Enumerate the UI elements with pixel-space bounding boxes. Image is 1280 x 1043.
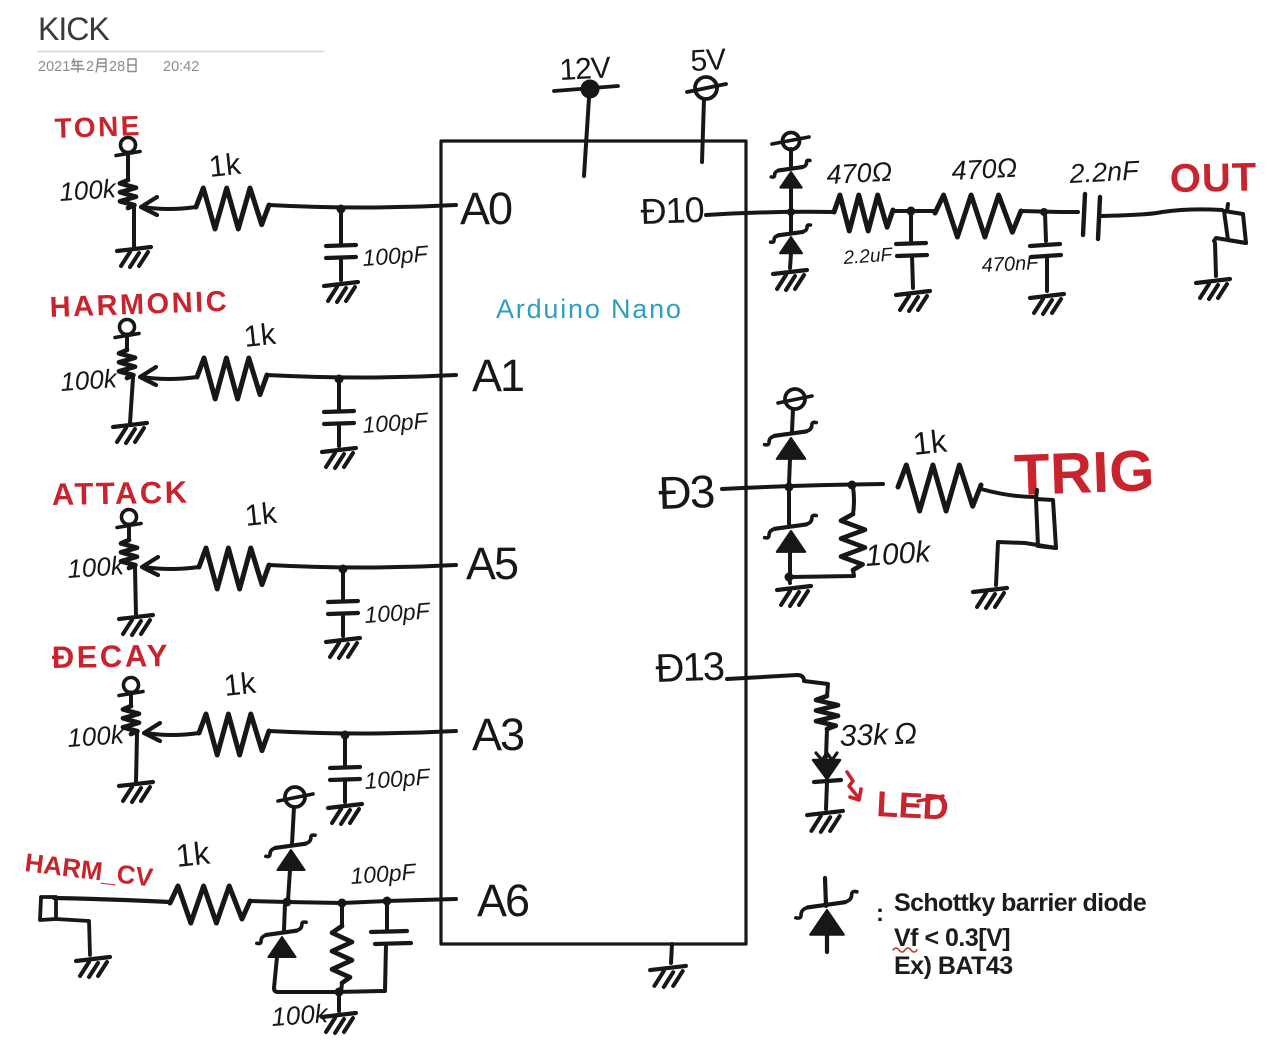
resistor 470ohm first bbox=[834, 195, 893, 231]
pin label D3 bbox=[658, 465, 715, 519]
svg-text:ĐECAY: ĐECAY bbox=[52, 638, 171, 675]
label TONE bbox=[54, 110, 142, 144]
power 5V bbox=[687, 43, 727, 162]
svg-text:100k: 100k bbox=[864, 535, 933, 573]
label OUT bbox=[1169, 155, 1257, 201]
label 470nF bbox=[981, 252, 1041, 277]
potentiometer TONE 100k bbox=[116, 138, 151, 268]
resistor 100k (A6) bbox=[332, 903, 352, 992]
red arrow to LED label bbox=[847, 772, 861, 800]
label 100pF (HARMONIC) bbox=[362, 407, 431, 438]
svg-text:ATTACK: ATTACK bbox=[52, 475, 190, 512]
label 1k (HARMONIC) bbox=[242, 318, 278, 354]
diode D10 clamp bottom Schottky bbox=[771, 214, 811, 268]
svg-text:OUT: OUT bbox=[1169, 155, 1257, 201]
label 1k (TONE) bbox=[207, 148, 243, 184]
divider line bbox=[38, 51, 324, 53]
wire 1k to pin A3 bbox=[269, 731, 456, 734]
svg-text:100pF: 100pF bbox=[364, 597, 433, 628]
wire to node1 (filter) bbox=[893, 209, 935, 213]
label 1k (HARM_CV) bbox=[174, 835, 212, 874]
wire D3 to trig network bbox=[722, 484, 883, 489]
wire pot wiper to 1k (TONE) bbox=[141, 197, 196, 215]
svg-text:HARMONIC: HARMONIC bbox=[49, 286, 230, 324]
potentiometer HARMONIC 100k bbox=[113, 320, 147, 444]
svg-text:470nF: 470nF bbox=[981, 252, 1041, 277]
svg-text:100k: 100k bbox=[58, 173, 118, 207]
wire node to cap node (A6) bbox=[342, 901, 387, 903]
diode D_A6_bottom Schottky bbox=[257, 904, 336, 992]
label 100pF (A6) bbox=[350, 858, 419, 889]
wire 1k to pin A5 bbox=[269, 565, 456, 568]
svg-text:100k: 100k bbox=[66, 550, 126, 584]
pin label A1 bbox=[472, 350, 523, 401]
svg-text:2: 2 bbox=[86, 59, 94, 75]
svg-text:100pF: 100pF bbox=[350, 858, 419, 889]
resistor 470ohm second bbox=[935, 195, 1021, 237]
diode D_A6_top Schottky bbox=[266, 835, 315, 900]
label 100k (D3) bbox=[864, 535, 933, 573]
title KICK bbox=[38, 11, 109, 47]
pin label A5 bbox=[466, 538, 518, 589]
label Arduino Nano bbox=[496, 294, 683, 324]
label 100k (ATTACK pot) bbox=[66, 550, 126, 584]
svg-text:1k: 1k bbox=[243, 497, 279, 533]
diode D10 clamp top Schottky bbox=[771, 149, 810, 209]
svg-text:Đ13: Đ13 bbox=[655, 645, 725, 691]
ground (Arduino box) bbox=[650, 944, 686, 987]
pin label D13 bbox=[655, 645, 725, 691]
label 1k (D3) bbox=[911, 423, 949, 462]
svg-text:Đ10: Đ10 bbox=[640, 189, 704, 232]
label 470ohm first bbox=[826, 157, 893, 190]
label 33k ohm bbox=[839, 717, 917, 753]
connector OUT jack bbox=[1214, 204, 1246, 276]
red squiggle under Vf bbox=[893, 948, 917, 952]
label 100pF (ATTACK) bbox=[364, 597, 433, 628]
label 1k (DECAY) bbox=[222, 667, 258, 703]
svg-text:2021: 2021 bbox=[38, 59, 70, 75]
node 100k junction A6 bbox=[338, 899, 347, 908]
label HARMONIC bbox=[49, 286, 230, 324]
capacitor 100pF (HARMONIC) bbox=[322, 375, 356, 469]
svg-text:20:42: 20:42 bbox=[163, 59, 199, 75]
capacitor 100pF (DECAY) bbox=[328, 731, 362, 825]
node bottom junction A6 bbox=[335, 988, 344, 997]
potentiometer DECAY 100k bbox=[119, 678, 153, 803]
legend text Schottky barrier diode bbox=[894, 889, 1147, 917]
wire D13 to resistor bbox=[727, 675, 828, 696]
wire jack to 1k (HARM_CV) bbox=[54, 898, 170, 902]
label 1k (ATTACK) bbox=[243, 497, 279, 533]
svg-text:1k: 1k bbox=[222, 667, 258, 703]
svg-text:Đ3: Đ3 bbox=[658, 465, 715, 519]
wire to node2 (filter) bbox=[1021, 211, 1060, 212]
resistor 1k (HARMONIC) bbox=[197, 358, 267, 399]
potentiometer ATTACK 100k bbox=[117, 510, 153, 636]
ground (D10 clamp) bbox=[773, 270, 807, 290]
wire pot wiper to 1k (DECAY) bbox=[144, 723, 199, 741]
node D10 clamp junction bbox=[787, 208, 795, 216]
capacitor 100pF (A6) bbox=[371, 901, 411, 990]
power 5V terminal (A6 clamp) bbox=[278, 787, 313, 807]
label 100k (TONE pot) bbox=[58, 173, 118, 207]
wire node to 100k node (A6) bbox=[287, 902, 342, 903]
svg-text:2.2uF: 2.2uF bbox=[842, 245, 894, 270]
wire 1k to pin A1 bbox=[267, 375, 456, 378]
resistor 1k (D3) bbox=[898, 465, 981, 511]
wire D10 to filter bbox=[706, 212, 834, 215]
svg-text:A5: A5 bbox=[466, 538, 518, 589]
svg-text:Schottky barrier diode: Schottky barrier diode bbox=[894, 889, 1147, 917]
ground (TRIG jack) bbox=[973, 588, 1007, 608]
wire cap to OUT jack bbox=[1100, 209, 1222, 216]
svg-text:470Ω: 470Ω bbox=[951, 153, 1018, 186]
label TRIG bbox=[1013, 438, 1156, 508]
svg-text:1k: 1k bbox=[174, 835, 212, 874]
capacitor 100pF (ATTACK) bbox=[326, 565, 360, 659]
pin label A0 bbox=[460, 183, 512, 234]
resistor 100k (D3) bbox=[791, 487, 865, 577]
resistor 1k (DECAY) bbox=[199, 714, 269, 755]
ground (LED) bbox=[807, 811, 843, 832]
label 100k (DECAY pot) bbox=[66, 719, 126, 753]
svg-text:Vf < 0.3[V]: Vf < 0.3[V] bbox=[894, 924, 1010, 952]
label 100pF (DECAY) bbox=[364, 763, 433, 794]
wire 5V to diode (A6) bbox=[292, 807, 294, 844]
date 2021-02-28 20:42 bbox=[38, 59, 199, 75]
LED indicator bbox=[813, 753, 841, 809]
legend text Ex) BAT43 bbox=[894, 952, 1013, 980]
diode D3 clamp top Schottky bbox=[765, 409, 817, 484]
svg-text:A3: A3 bbox=[472, 709, 524, 760]
pin label A6 bbox=[477, 875, 529, 926]
wire 1k to node (HARM_CV) bbox=[250, 901, 287, 902]
svg-text:LED: LED bbox=[876, 783, 950, 828]
ground (D3 clamp) bbox=[777, 577, 811, 606]
wire 1k to TRIG jack bbox=[981, 489, 1035, 497]
IC U1 Arduino Nano body bbox=[441, 141, 746, 944]
pin label A3 bbox=[472, 709, 524, 760]
node cap junction A6 bbox=[383, 897, 392, 906]
svg-text:100pF: 100pF bbox=[362, 407, 431, 438]
power 5V terminal (D10 clamp) bbox=[772, 133, 809, 150]
label ATTACK bbox=[52, 475, 190, 512]
label LED bbox=[876, 783, 950, 828]
resistor 33k (D13) bbox=[816, 696, 838, 757]
label 100k (HARMONIC pot) bbox=[59, 363, 119, 397]
label DECAY bbox=[52, 638, 171, 675]
node D3 wire junction bbox=[848, 481, 857, 490]
label 100pF (TONE) bbox=[362, 240, 431, 271]
label 470ohm second bbox=[951, 153, 1018, 186]
label HARM_CV bbox=[23, 847, 155, 893]
svg-text:100pF: 100pF bbox=[364, 763, 433, 794]
svg-text:33k Ω: 33k Ω bbox=[839, 717, 917, 753]
svg-text::: : bbox=[876, 900, 884, 927]
svg-text:A0: A0 bbox=[460, 183, 512, 234]
resistor 1k (ATTACK) bbox=[199, 548, 269, 589]
svg-text:470Ω: 470Ω bbox=[826, 157, 893, 190]
connector TRIG jack bbox=[996, 490, 1056, 585]
node filter junction 1 bbox=[907, 207, 916, 216]
svg-text:KICK: KICK bbox=[38, 11, 109, 47]
node D3 clamp junction bbox=[785, 483, 794, 492]
legend colon bbox=[876, 900, 884, 927]
svg-text:100k: 100k bbox=[59, 363, 119, 397]
svg-text:A1: A1 bbox=[472, 350, 523, 401]
svg-text:100k: 100k bbox=[66, 719, 126, 753]
capacitor 100pF (TONE) bbox=[324, 205, 358, 303]
pin label D10 bbox=[640, 189, 704, 232]
svg-text:1k: 1k bbox=[911, 423, 949, 462]
svg-text:A6: A6 bbox=[477, 875, 529, 926]
svg-text:100pF: 100pF bbox=[362, 240, 431, 271]
power 12V bbox=[554, 51, 618, 176]
ground (A6 bottom) bbox=[322, 992, 356, 1033]
svg-text:Ex) BAT43: Ex) BAT43 bbox=[894, 952, 1013, 980]
resistor 1k (HARM_CV) bbox=[170, 886, 250, 923]
wire pot wiper to 1k (HARMONIC) bbox=[140, 367, 197, 385]
resistor 1k (TONE) bbox=[196, 188, 269, 229]
label 100k (A6) bbox=[270, 998, 330, 1032]
capacitor 470nF bbox=[1030, 213, 1064, 314]
connector HARM_CV input jack bbox=[40, 897, 110, 977]
svg-text:5V: 5V bbox=[690, 43, 727, 78]
wire bottom rail (A6) bbox=[336, 991, 385, 992]
svg-text:1k: 1k bbox=[207, 148, 243, 184]
svg-text:Arduino Nano: Arduino Nano bbox=[496, 294, 683, 324]
node filter junction 2 bbox=[1040, 208, 1048, 216]
legend Schottky diode symbol bbox=[796, 878, 857, 952]
diode D3 clamp bottom Schottky bbox=[765, 489, 817, 575]
node D3 bottom junction bbox=[785, 573, 794, 582]
capacitor 2.2uF bbox=[896, 213, 930, 311]
label 2.2uF bbox=[842, 245, 894, 270]
wire pot wiper to 1k (ATTACK) bbox=[142, 557, 199, 575]
capacitor 2.2nF series bbox=[1060, 194, 1100, 239]
ground (OUT jack) bbox=[1196, 279, 1230, 299]
legend text Vf bbox=[894, 924, 1010, 952]
wire node to pin A6 bbox=[387, 899, 456, 901]
svg-text:2.2nF: 2.2nF bbox=[1068, 155, 1141, 189]
power 5V terminal (D3 clamp) bbox=[778, 389, 812, 409]
node diode clamp junction A6 bbox=[283, 898, 292, 907]
svg-text:1k: 1k bbox=[242, 318, 278, 354]
wire 1k to pin A0 bbox=[269, 205, 456, 208]
label 2.2nF bbox=[1068, 155, 1141, 189]
svg-text:28: 28 bbox=[109, 59, 125, 75]
